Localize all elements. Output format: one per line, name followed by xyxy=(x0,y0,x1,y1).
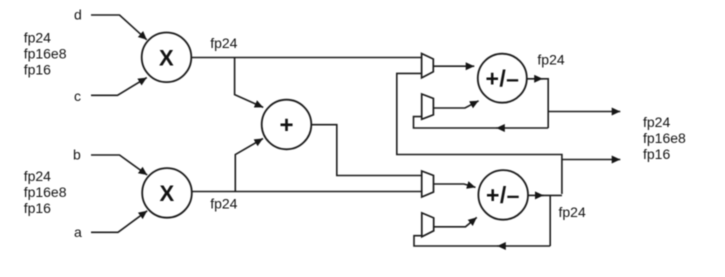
wire MX1 output to AS1 xyxy=(433,65,474,67)
wire MX4 output to AS2 input 2 xyxy=(434,217,477,226)
mux MX3 lower operand select xyxy=(422,171,434,197)
svg-text:fp16e8: fp16e8 xyxy=(643,130,686,146)
wire AS2 output down to feedback xyxy=(549,195,551,246)
wire AS2 output arrowed stub xyxy=(528,194,544,196)
svg-text:+/–: +/– xyxy=(486,182,520,208)
add/sub AS1 xyxy=(478,54,527,103)
wire AS1 feedback xyxy=(496,127,548,129)
wire AS2 output net xyxy=(542,194,562,196)
svg-text:fp16: fp16 xyxy=(24,200,51,216)
wire M2 output fp24 xyxy=(192,191,422,193)
svg-text:fp16e8: fp16e8 xyxy=(24,184,67,200)
svg-text:fp24: fp24 xyxy=(210,35,237,51)
svg-text:fp24: fp24 xyxy=(643,114,670,130)
svg-text:fp16: fp16 xyxy=(643,146,670,162)
wire AS1 output arrowed stub xyxy=(527,78,543,80)
wire MX3 output to AS2 xyxy=(434,184,476,187)
wire AS2 feedback to mux MX4 xyxy=(414,236,498,246)
wire output 1 arrow xyxy=(548,111,620,113)
svg-text:+/–: +/– xyxy=(486,65,520,91)
svg-text:+: + xyxy=(280,112,294,139)
svg-text:fp16e8: fp16e8 xyxy=(24,46,67,62)
multiplier M2 xyxy=(142,168,192,218)
wire AS1 output net xyxy=(541,79,548,128)
svg-text:fp24: fp24 xyxy=(210,195,237,211)
mux MX4 AS2 feedback select xyxy=(422,213,434,237)
wire M1 output fp24 xyxy=(191,57,421,59)
wire a input xyxy=(91,211,147,233)
adder A1 xyxy=(262,100,312,150)
svg-text:fp16: fp16 xyxy=(24,61,51,77)
svg-text:a: a xyxy=(74,224,82,240)
wire junction M1-out to adder input 1 xyxy=(235,58,264,108)
svg-text:d: d xyxy=(74,7,82,23)
wire d input xyxy=(91,15,147,40)
wire cross feedback AS2-output to MX1 input 2 xyxy=(397,73,562,194)
add/sub AS2 xyxy=(478,170,528,220)
wire MX2 output to AS1 input 2 xyxy=(433,101,478,108)
svg-text:fp24: fp24 xyxy=(537,51,564,67)
wire junction M2-out to adder input 2 xyxy=(235,139,263,192)
wire AS2 feedback xyxy=(497,245,550,247)
wire adder output to mux MX3 xyxy=(311,125,421,176)
wire c input xyxy=(91,78,147,96)
wire output 2 arrow xyxy=(562,159,620,161)
svg-text:c: c xyxy=(74,88,81,104)
svg-text:fp24: fp24 xyxy=(24,168,51,184)
svg-text:X: X xyxy=(160,181,175,206)
svg-text:fp24: fp24 xyxy=(559,204,586,220)
multiplier M1 xyxy=(142,33,192,83)
svg-text:X: X xyxy=(159,45,174,70)
wire b input xyxy=(91,155,147,175)
svg-text:b: b xyxy=(73,147,81,163)
svg-text:fp24: fp24 xyxy=(24,30,51,46)
wire AS1 feedback to mux MX2 xyxy=(414,117,498,128)
mux MX1 upper operand select xyxy=(422,54,434,78)
mux MX2 AS1 feedback select xyxy=(422,94,434,119)
